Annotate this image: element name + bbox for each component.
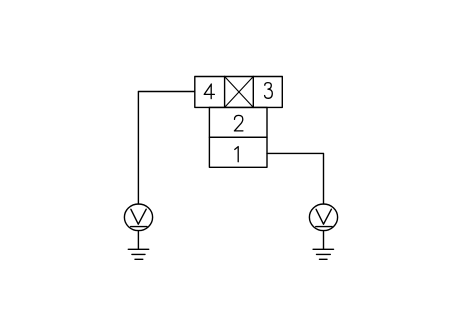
voltmeter V2 underline	[316, 226, 332, 228]
connector block 1	[209, 137, 267, 167]
ground G2 bar 2	[317, 253, 331, 255]
coil cross stroke 2	[225, 77, 254, 108]
voltmeter V2 circle	[309, 204, 337, 231]
voltmeter V1 circle	[124, 204, 152, 231]
wire W1: solenoid pin 4 to left voltmeter	[138, 92, 194, 205]
voltmeter V2 V glyph	[316, 209, 331, 224]
solenoid valve body (top row outline)	[195, 77, 282, 108]
pin number 2	[234, 115, 243, 130]
ground G1 bar 1	[128, 248, 148, 250]
ground G1 bar 2	[132, 253, 145, 255]
ground G2 bar 3	[320, 258, 328, 260]
coil cross stroke 1	[225, 77, 254, 108]
cell divider between 4 and X	[224, 77, 226, 108]
pin number 3	[265, 83, 273, 99]
voltmeter V1 V glyph	[131, 209, 146, 224]
ground G1 bar 3	[135, 258, 143, 260]
ground G2 bar 1	[313, 248, 333, 250]
wire V1 to ground	[137, 231, 139, 249]
wire V2 to ground	[323, 231, 325, 249]
pin number 4	[204, 84, 214, 99]
voltmeter V1 underline	[131, 226, 147, 228]
cell divider between X and 3	[252, 77, 254, 108]
pin number 1	[235, 147, 238, 162]
wire W2: connector pin 1 to right voltmeter	[267, 153, 324, 204]
connector block 2	[209, 107, 267, 137]
